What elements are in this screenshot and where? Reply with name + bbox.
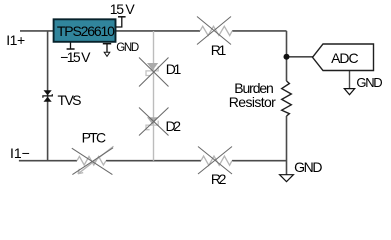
svg-text:GND: GND — [116, 42, 139, 54]
svg-text:I1−: I1− — [10, 145, 30, 161]
svg-text:GND: GND — [294, 159, 322, 175]
svg-text:PTC: PTC — [82, 130, 107, 146]
svg-text:15 V: 15 V — [110, 1, 136, 17]
svg-text:Resistor: Resistor — [229, 94, 276, 110]
svg-text:−15 V: −15 V — [60, 49, 91, 65]
svg-text:R1: R1 — [211, 42, 227, 58]
svg-text:R2: R2 — [211, 171, 227, 187]
svg-text:D2: D2 — [166, 118, 182, 134]
svg-text:D1: D1 — [166, 61, 182, 77]
svg-text:I1+: I1+ — [6, 32, 25, 48]
svg-text:ADC: ADC — [331, 50, 359, 66]
svg-text:TVS: TVS — [58, 92, 82, 108]
svg-text:TPS26610: TPS26610 — [57, 23, 115, 39]
svg-text:GND: GND — [356, 75, 382, 90]
